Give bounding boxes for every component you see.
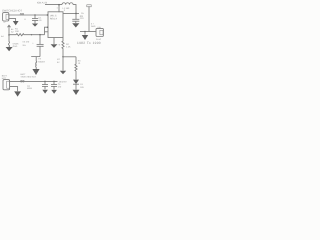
svg-text:1.2K: 1.2K xyxy=(66,46,71,49)
node at regulator input xyxy=(47,14,49,16)
ground arrow G4 xyxy=(51,44,58,48)
resistor R3 vertical xyxy=(75,57,77,80)
svg-text:3 +: 3 + xyxy=(91,22,95,25)
node on switched wire xyxy=(34,14,36,16)
ground arrow G6 xyxy=(73,90,80,95)
svg-text:TO: TO xyxy=(38,57,41,60)
off-page arrow down (to radio) xyxy=(32,69,39,75)
svg-text:A2: A2 xyxy=(3,21,5,24)
ground arrow G7 xyxy=(14,91,21,96)
svg-text:NT: NT xyxy=(57,58,61,61)
wire top feed xyxy=(45,4,62,6)
connector J3 xyxy=(3,80,10,90)
wire J1 pin A xyxy=(9,14,48,16)
svg-text:.01: .01 xyxy=(39,19,43,22)
capacitor C4 xyxy=(44,81,46,84)
resistor R2 vertical xyxy=(62,38,64,58)
ground arrow G2 xyxy=(82,35,88,40)
svg-text:470: 470 xyxy=(58,86,62,89)
svg-text:RADIO: RADIO xyxy=(38,61,45,64)
svg-text:A4: A4 xyxy=(1,35,4,38)
svg-text:+: + xyxy=(32,42,34,45)
svg-text:A2: A2 xyxy=(11,30,14,33)
wire J3 pin A rail xyxy=(10,80,58,82)
connector J2 xyxy=(96,28,103,36)
inline connector circles bottom xyxy=(20,80,22,82)
wire J3 pin B xyxy=(10,87,18,92)
node R1 out xyxy=(39,34,41,36)
svg-text:D1: D1 xyxy=(80,83,84,86)
ground arrow under C2 xyxy=(72,23,79,27)
svg-text:RAD: RAD xyxy=(91,25,96,28)
wire to output connector xyxy=(80,31,96,33)
svg-text:VR1 5: VR1 5 xyxy=(50,15,57,18)
wire to R3 xyxy=(63,56,76,58)
wire into U1 pins xyxy=(45,27,49,35)
svg-text:L1 180: L1 180 xyxy=(63,7,70,10)
svg-text:5V: 5V xyxy=(57,61,60,64)
ground arrow under C5 xyxy=(51,90,57,94)
svg-text:1: 1 xyxy=(57,7,59,10)
svg-text:GND: GND xyxy=(13,45,18,48)
regulator box U1 xyxy=(48,12,63,38)
svg-text:IGN A1 B: IGN A1 B xyxy=(37,1,47,4)
node R2 bottom xyxy=(62,56,64,58)
wire feed left xyxy=(8,26,9,47)
svg-text:18V: 18V xyxy=(80,86,84,89)
wire antenna feed xyxy=(88,6,90,31)
svg-text:MEM B+: MEM B+ xyxy=(59,80,68,83)
node at box top xyxy=(58,4,60,6)
svg-text:SWITCHED HOT: SWITCHED HOT xyxy=(21,76,37,79)
diode D1 xyxy=(73,80,79,84)
svg-text:1982 To 1990: 1982 To 1990 xyxy=(77,41,101,45)
fuse F1 top xyxy=(87,5,91,7)
node left junction xyxy=(8,34,10,36)
capacitor C2 xyxy=(75,14,77,20)
wire regulator output xyxy=(63,13,79,15)
svg-text:BATT: BATT xyxy=(21,73,27,76)
wire down to arrow xyxy=(36,57,37,69)
ground arrow G3 xyxy=(6,47,13,51)
ground arrow under C1 xyxy=(32,24,38,27)
capacitor C1 xyxy=(34,15,36,18)
svg-text:C3 470: C3 470 xyxy=(23,40,31,43)
svg-text:CB: CB xyxy=(81,12,84,15)
node ground branch xyxy=(84,31,86,33)
wire J1 pin B xyxy=(9,19,15,21)
inductor L1 xyxy=(62,3,73,5)
wire down to ground xyxy=(84,32,86,35)
svg-text:BATT: BATT xyxy=(2,74,8,77)
ground arrow G5 xyxy=(60,71,66,75)
svg-text:REG A: REG A xyxy=(50,18,57,21)
node C4 xyxy=(44,81,46,83)
svg-text:G: G xyxy=(59,44,61,47)
svg-text:150: 150 xyxy=(15,30,19,33)
wire L1 to corner xyxy=(73,5,76,14)
wire into box top xyxy=(58,5,60,12)
capacitor C3 xyxy=(39,35,41,45)
ground arrow under C4 xyxy=(42,90,48,94)
connector J1 xyxy=(3,13,9,21)
inline connector circles xyxy=(20,13,22,15)
wire C3 bottom corner xyxy=(31,56,40,58)
U1 ground pin xyxy=(53,38,55,45)
wire down xyxy=(62,57,64,71)
capacitor C5 xyxy=(53,81,55,84)
resistor R1 xyxy=(9,34,45,36)
svg-text:2: 2 xyxy=(42,45,44,48)
svg-text:MEM: MEM xyxy=(27,87,32,90)
svg-text:25V: 25V xyxy=(23,44,27,47)
svg-text:A: A xyxy=(24,18,26,21)
node output junction xyxy=(75,13,77,15)
svg-text:SWITCHED HOT: SWITCHED HOT xyxy=(2,10,22,13)
node C5 xyxy=(53,81,55,83)
off page arrow up xyxy=(8,25,11,27)
ground arrow G1 xyxy=(13,21,19,25)
